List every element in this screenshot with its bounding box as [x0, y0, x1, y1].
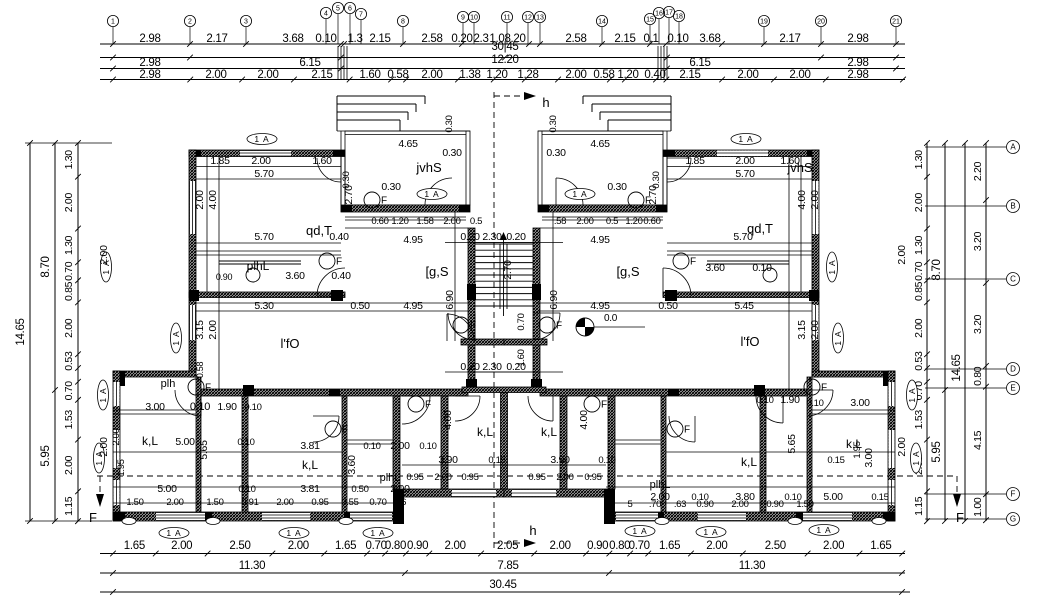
svg-text:2.00: 2.00	[276, 497, 293, 508]
svg-text:0.80: 0.80	[609, 540, 630, 552]
svg-text:4.95: 4.95	[403, 300, 423, 312]
svg-text:1 A: 1 A	[738, 134, 753, 144]
svg-text:F: F	[601, 400, 607, 411]
svg-text:20: 20	[817, 18, 825, 25]
svg-text:1.28: 1.28	[517, 69, 538, 81]
svg-text:2.00: 2.00	[434, 472, 451, 483]
svg-text:1.30: 1.30	[63, 235, 75, 255]
svg-text:F: F	[342, 425, 348, 436]
svg-text:1.53: 1.53	[63, 410, 75, 430]
svg-text:5.70: 5.70	[733, 231, 753, 243]
svg-text:2.00: 2.00	[288, 540, 309, 552]
svg-text:7.85: 7.85	[497, 560, 518, 572]
svg-text:1 A: 1 A	[286, 528, 301, 538]
svg-text:0.85: 0.85	[913, 281, 925, 301]
svg-text:2.00: 2.00	[550, 540, 571, 552]
svg-text:0.80: 0.80	[385, 540, 406, 552]
svg-text:3: 3	[244, 18, 248, 25]
svg-text:2.00: 2.00	[98, 245, 110, 265]
svg-text:5.65: 5.65	[786, 434, 798, 454]
svg-text:1.60: 1.60	[516, 349, 527, 366]
svg-text:2.20: 2.20	[972, 161, 984, 181]
svg-text:6.90: 6.90	[444, 290, 456, 310]
svg-text:E: E	[1010, 383, 1015, 392]
svg-text:0.60: 0.60	[643, 216, 660, 227]
svg-text:1 A: 1 A	[572, 189, 587, 199]
svg-text:1.65: 1.65	[659, 540, 680, 552]
svg-text:2.00: 2.00	[207, 320, 219, 340]
svg-text:0.10: 0.10	[363, 441, 380, 452]
svg-text:2.15: 2.15	[311, 69, 332, 81]
svg-text:F: F	[956, 510, 964, 525]
svg-text:1.50: 1.50	[206, 497, 223, 508]
svg-text:2.00: 2.00	[251, 155, 271, 167]
svg-text:0.55: 0.55	[341, 497, 358, 508]
svg-text:1.50: 1.50	[796, 499, 813, 510]
svg-text:2.00: 2.00	[111, 428, 122, 445]
svg-text:0.10: 0.10	[237, 437, 254, 448]
svg-text:2.00: 2.00	[257, 69, 278, 81]
svg-text:h: h	[542, 95, 549, 110]
svg-text:0.95: 0.95	[461, 472, 478, 483]
svg-text:1.38: 1.38	[459, 69, 480, 81]
svg-text:jvhS: jvhS	[415, 160, 442, 175]
svg-text:2.98: 2.98	[847, 57, 868, 69]
svg-text:1 A: 1 A	[827, 259, 837, 274]
svg-text:16: 16	[655, 10, 663, 17]
svg-text:1.30: 1.30	[913, 235, 925, 255]
svg-text:4.00: 4.00	[796, 190, 808, 210]
svg-text:0.50: 0.50	[350, 300, 370, 312]
svg-text:11.30: 11.30	[239, 560, 265, 572]
svg-text:6.15: 6.15	[689, 57, 710, 69]
svg-text:0.30: 0.30	[607, 181, 627, 193]
svg-text:5: 5	[628, 499, 633, 510]
svg-text:12.20: 12.20	[491, 54, 518, 66]
svg-text:2.00: 2.00	[809, 190, 821, 210]
svg-text:11: 11	[503, 14, 510, 21]
svg-text:2.98: 2.98	[139, 69, 160, 81]
svg-text:5.70: 5.70	[254, 231, 274, 243]
svg-text:1.30: 1.30	[63, 150, 75, 170]
svg-text:0.90: 0.90	[766, 499, 783, 510]
svg-text:A: A	[1010, 142, 1016, 151]
svg-text:10: 10	[470, 14, 478, 21]
svg-text:0.70: 0.70	[63, 261, 75, 281]
svg-text:2.00: 2.00	[735, 155, 755, 167]
svg-text:0.5: 0.5	[606, 216, 618, 227]
svg-text:l'fO: l'fO	[280, 336, 299, 351]
svg-text:0.53: 0.53	[63, 351, 75, 371]
svg-text:2.15: 2.15	[369, 33, 390, 45]
svg-text:.58: .58	[554, 216, 566, 227]
svg-text:4.15: 4.15	[972, 430, 984, 450]
svg-text:2.00: 2.00	[913, 318, 925, 338]
svg-text:2.58: 2.58	[421, 33, 442, 45]
svg-text:1.90: 1.90	[217, 401, 237, 413]
svg-text:0.6: 0.6	[394, 497, 406, 508]
svg-text:2.00: 2.00	[789, 69, 810, 81]
svg-text:1 A: 1 A	[370, 528, 385, 538]
svg-text:k,L: k,L	[142, 434, 158, 448]
svg-text:1 A: 1 A	[632, 526, 647, 536]
svg-text:0.1: 0.1	[643, 33, 658, 45]
svg-text:7: 7	[359, 11, 363, 18]
svg-text:0.95: 0.95	[528, 472, 545, 483]
svg-text:4.00: 4.00	[207, 190, 219, 210]
svg-text:2.30: 2.30	[482, 231, 502, 243]
svg-text:0.30: 0.30	[442, 147, 462, 159]
svg-text:0.70: 0.70	[516, 313, 527, 330]
svg-text:2.00: 2.00	[565, 69, 586, 81]
svg-text:3.00: 3.00	[863, 448, 875, 468]
svg-text:G: G	[1010, 514, 1016, 523]
svg-text:2.00: 2.00	[731, 499, 748, 510]
svg-text:5.70: 5.70	[254, 168, 274, 180]
svg-text:3.68: 3.68	[699, 33, 720, 45]
svg-text:4.95: 4.95	[590, 234, 610, 246]
svg-text:8: 8	[401, 18, 405, 25]
svg-text:6.15: 6.15	[299, 57, 320, 69]
svg-text:5.00: 5.00	[175, 436, 195, 448]
svg-text:2.00: 2.00	[171, 540, 192, 552]
svg-text:15: 15	[646, 16, 654, 23]
svg-text:0.40: 0.40	[644, 69, 665, 81]
svg-text:17: 17	[665, 9, 673, 16]
svg-text:D: D	[1010, 364, 1016, 373]
svg-text:0.50: 0.50	[351, 484, 368, 495]
svg-text:0.91: 0.91	[241, 497, 258, 508]
svg-text:2.00: 2.00	[194, 190, 206, 210]
svg-text:plhL: plhL	[247, 259, 270, 273]
svg-text:5.65: 5.65	[198, 440, 210, 460]
svg-text:h: h	[529, 523, 536, 538]
svg-text:1: 1	[111, 18, 115, 25]
svg-text:14.65: 14.65	[15, 318, 27, 345]
svg-text:0.10: 0.10	[756, 395, 773, 406]
svg-text:k,L: k,L	[302, 458, 318, 472]
svg-text:30|45: 30|45	[491, 41, 518, 53]
svg-text:5.00: 5.00	[157, 483, 177, 495]
svg-text:2.70: 2.70	[502, 260, 514, 280]
svg-text:1.95: 1.95	[852, 441, 863, 458]
svg-text:0.53: 0.53	[913, 351, 925, 371]
svg-text:4.65: 4.65	[590, 138, 610, 150]
svg-text:.70: .70	[649, 499, 661, 510]
svg-text:0.10: 0.10	[419, 441, 436, 452]
svg-text:3.60: 3.60	[285, 270, 305, 282]
svg-text:0.70: 0.70	[63, 381, 75, 401]
svg-text:0.10: 0.10	[752, 262, 772, 274]
svg-text:0.90: 0.90	[696, 499, 713, 510]
svg-text:1 A: 1 A	[816, 525, 831, 535]
svg-text:2.00: 2.00	[823, 540, 844, 552]
svg-text:4.00: 4.00	[578, 410, 590, 430]
svg-text:0.15: 0.15	[488, 455, 505, 466]
svg-text:1 A: 1 A	[703, 527, 718, 537]
svg-text:2.05: 2.05	[497, 540, 518, 552]
svg-text:3.20: 3.20	[972, 231, 984, 251]
svg-text:5.95: 5.95	[40, 445, 52, 466]
svg-text:l'fO: l'fO	[740, 334, 759, 349]
svg-text:1.20: 1.20	[391, 216, 408, 227]
svg-text:k,L: k,L	[541, 425, 557, 439]
svg-text:0.0: 0.0	[604, 313, 618, 324]
svg-text:5: 5	[336, 5, 340, 12]
svg-text:2.00: 2.00	[896, 437, 908, 457]
svg-text:0.30: 0.30	[381, 181, 401, 193]
svg-text:F: F	[1011, 489, 1016, 498]
svg-text:0.10: 0.10	[598, 455, 615, 466]
svg-text:0.10: 0.10	[315, 33, 336, 45]
svg-text:B: B	[1010, 201, 1015, 210]
svg-text:0.95: 0.95	[406, 472, 423, 483]
svg-text:4: 4	[324, 10, 328, 17]
svg-text:2.00: 2.00	[706, 540, 727, 552]
svg-text:2.00: 2.00	[809, 320, 821, 340]
svg-text:3.00: 3.00	[850, 397, 870, 409]
svg-text:2.30: 2.30	[482, 361, 502, 373]
svg-text:0.40: 0.40	[329, 231, 349, 243]
svg-text:0.10: 0.10	[190, 401, 210, 413]
svg-text:9: 9	[461, 14, 465, 21]
svg-text:0.90: 0.90	[587, 540, 608, 552]
svg-text:1 A: 1 A	[424, 189, 439, 199]
svg-text:1 A: 1 A	[833, 330, 843, 345]
svg-text:1.85: 1.85	[685, 155, 705, 167]
svg-text:1.15: 1.15	[63, 496, 75, 516]
svg-text:plh: plh	[161, 378, 176, 390]
svg-text:3.81: 3.81	[300, 483, 320, 495]
svg-text:0.60: 0.60	[371, 216, 388, 227]
svg-text:0.10: 0.10	[244, 402, 261, 413]
svg-text:2.00: 2.00	[98, 437, 110, 457]
svg-text:0.15: 0.15	[827, 455, 844, 466]
svg-text:1 A: 1 A	[911, 450, 921, 465]
svg-text:[g,S: [g,S	[616, 264, 639, 279]
svg-text:4.95: 4.95	[590, 300, 610, 312]
svg-text:1.53: 1.53	[913, 410, 925, 430]
svg-text:5.30: 5.30	[254, 300, 274, 312]
svg-text:k,L: k,L	[741, 455, 757, 469]
svg-text:2.50: 2.50	[765, 540, 786, 552]
svg-text:0.20: 0.20	[451, 33, 472, 45]
svg-text:0.10: 0.10	[667, 33, 688, 45]
svg-text:k,L: k,L	[477, 425, 493, 439]
svg-text:0.5: 0.5	[470, 216, 482, 227]
svg-text:5.00: 5.00	[823, 491, 843, 503]
svg-text:2.00: 2.00	[896, 245, 908, 265]
svg-text:6.90: 6.90	[548, 290, 560, 310]
svg-text:F: F	[336, 257, 342, 268]
svg-text:F: F	[89, 510, 97, 525]
svg-text:plhL: plhL	[650, 479, 671, 491]
svg-text:0.30: 0.30	[444, 115, 455, 132]
svg-text:3.20: 3.20	[972, 314, 984, 334]
svg-text:2.00: 2.00	[443, 216, 460, 227]
svg-text:2.98: 2.98	[139, 57, 160, 69]
svg-text:0.10: 0.10	[238, 484, 255, 495]
svg-text:2.00: 2.00	[63, 318, 75, 338]
svg-text:1.00: 1.00	[972, 497, 984, 517]
svg-text:1.60: 1.60	[312, 155, 332, 167]
svg-text:2.00: 2.00	[63, 455, 75, 475]
svg-text:3.60: 3.60	[346, 455, 358, 475]
svg-text:0.20: 0.20	[506, 231, 526, 243]
svg-text:3.15: 3.15	[796, 320, 808, 340]
svg-text:F: F	[470, 321, 476, 332]
svg-text:qd,T: qd,T	[306, 223, 332, 238]
svg-text:21: 21	[892, 18, 900, 25]
svg-text:11.30: 11.30	[739, 560, 765, 572]
svg-text:1 A: 1 A	[98, 387, 108, 402]
svg-text:0.40: 0.40	[331, 270, 351, 282]
svg-text:F: F	[205, 383, 211, 394]
svg-text:0.70: 0.70	[629, 540, 650, 552]
svg-text:1.58: 1.58	[416, 216, 433, 227]
svg-text:0.95: 0.95	[311, 497, 328, 508]
svg-text:1.20: 1.20	[617, 69, 638, 81]
svg-text:1.20: 1.20	[486, 69, 507, 81]
svg-text:2.00: 2.00	[737, 69, 758, 81]
svg-text:1 A: 1 A	[171, 330, 181, 345]
svg-text:0.30: 0.30	[548, 115, 559, 132]
svg-text:0.95: 0.95	[584, 472, 601, 483]
svg-text:2.00: 2.00	[390, 483, 410, 495]
svg-text:3.15: 3.15	[194, 320, 206, 340]
svg-text:30.45: 30.45	[489, 579, 516, 591]
svg-text:0.70: 0.70	[369, 497, 386, 508]
svg-text:1.65: 1.65	[124, 540, 145, 552]
svg-text:0.58: 0.58	[195, 362, 205, 379]
svg-text:8.70: 8.70	[931, 259, 943, 280]
svg-text:4.65: 4.65	[398, 138, 418, 150]
svg-text:F: F	[425, 400, 431, 411]
svg-text:3.68: 3.68	[282, 33, 303, 45]
svg-text:2: 2	[188, 18, 192, 25]
svg-text:0.15: 0.15	[871, 492, 888, 503]
svg-text:2.70: 2.70	[647, 185, 659, 205]
svg-text:2.00: 2.00	[390, 440, 410, 452]
svg-text:3.81: 3.81	[300, 440, 320, 452]
svg-text:2.70: 2.70	[343, 185, 355, 205]
svg-text:3.90: 3.90	[438, 454, 458, 466]
svg-text:1 A: 1 A	[907, 387, 917, 402]
svg-text:2.00: 2.00	[421, 69, 442, 81]
svg-text:1 A: 1 A	[254, 134, 269, 144]
svg-text:4.00: 4.00	[442, 410, 454, 430]
svg-text:3.00: 3.00	[145, 401, 165, 413]
svg-text:13: 13	[536, 14, 544, 21]
svg-text:0.90: 0.90	[407, 540, 428, 552]
svg-text:1.30: 1.30	[913, 150, 925, 170]
svg-text:1.20: 1.20	[625, 216, 642, 227]
svg-text:2.50: 2.50	[229, 540, 250, 552]
svg-text:0.90: 0.90	[216, 272, 233, 282]
svg-text:2.98: 2.98	[847, 69, 868, 81]
svg-text:2.15: 2.15	[614, 33, 635, 45]
svg-text:2.17: 2.17	[779, 33, 800, 45]
svg-text:2.3: 2.3	[473, 33, 488, 45]
svg-text:2.17: 2.17	[206, 33, 227, 45]
svg-text:0.70: 0.70	[913, 261, 925, 281]
svg-text:2.00: 2.00	[166, 497, 183, 508]
svg-text:F: F	[821, 383, 827, 394]
svg-text:1.3: 1.3	[347, 33, 362, 45]
svg-text:0.58: 0.58	[387, 69, 408, 81]
svg-text:12: 12	[524, 14, 532, 21]
svg-text:2.58: 2.58	[565, 33, 586, 45]
svg-text:0.10: 0.10	[806, 398, 823, 409]
svg-text:1.60: 1.60	[359, 69, 380, 81]
svg-text:18: 18	[675, 13, 683, 20]
svg-text:1.65: 1.65	[870, 540, 891, 552]
svg-text:1.50: 1.50	[126, 497, 143, 508]
svg-text:C: C	[1010, 274, 1016, 283]
svg-text:1.15: 1.15	[913, 496, 925, 516]
svg-text:5.45: 5.45	[734, 300, 754, 312]
svg-text:2.15: 2.15	[679, 69, 700, 81]
svg-text:0.70: 0.70	[366, 540, 387, 552]
svg-text:2.00: 2.00	[576, 216, 593, 227]
svg-text:14.65: 14.65	[951, 354, 963, 381]
svg-text:F: F	[381, 196, 387, 207]
svg-text:2.00: 2.00	[556, 472, 573, 483]
svg-text:5.95: 5.95	[931, 441, 943, 462]
svg-text:F: F	[556, 321, 562, 332]
svg-text:2.00: 2.00	[205, 69, 226, 81]
svg-text:0.30: 0.30	[546, 147, 566, 159]
svg-text:8.70: 8.70	[40, 256, 52, 277]
svg-text:1.60: 1.60	[780, 155, 800, 167]
svg-text:2.00: 2.00	[63, 193, 75, 213]
svg-text:0.20: 0.20	[460, 231, 480, 243]
svg-text:F: F	[684, 425, 690, 436]
svg-text:0.58: 0.58	[593, 69, 614, 81]
svg-text:0.85: 0.85	[63, 281, 75, 301]
svg-text:4.95: 4.95	[403, 234, 423, 246]
svg-text:F: F	[690, 257, 696, 268]
svg-text:3.90: 3.90	[550, 454, 570, 466]
svg-text:14: 14	[598, 18, 606, 25]
svg-text:1.65: 1.65	[335, 540, 356, 552]
svg-text:[g,S: [g,S	[425, 264, 448, 279]
svg-text:0.50: 0.50	[658, 300, 678, 312]
svg-text:2.98: 2.98	[139, 33, 160, 45]
svg-text:6: 6	[348, 5, 352, 12]
svg-text:1.90: 1.90	[780, 394, 800, 406]
svg-text:2.00: 2.00	[913, 193, 925, 213]
svg-text:19: 19	[760, 18, 768, 25]
svg-text:.63: .63	[674, 499, 686, 510]
svg-text:2.00: 2.00	[445, 540, 466, 552]
svg-text:0.20: 0.20	[460, 361, 480, 373]
svg-text:2.98: 2.98	[847, 33, 868, 45]
svg-text:1.85: 1.85	[210, 155, 230, 167]
svg-text:3.60: 3.60	[705, 262, 725, 274]
svg-text:1.95: 1.95	[116, 459, 127, 476]
svg-text:5.70: 5.70	[735, 168, 755, 180]
svg-text:1 A: 1 A	[166, 528, 181, 538]
